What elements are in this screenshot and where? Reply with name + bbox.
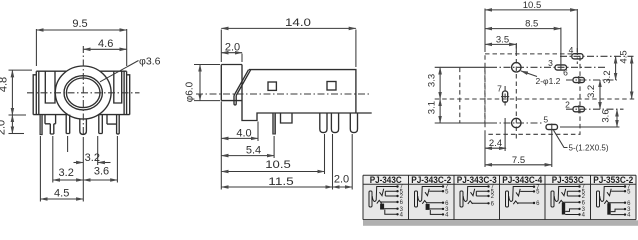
svg-text:3: 3 — [548, 58, 553, 68]
dim 3.2 upper — [74, 162, 84, 164]
dim 10.5 side — [221, 171, 324, 173]
switch V — [471, 189, 475, 196]
wire pin4 — [385, 210, 398, 215]
svg-text:2: 2 — [565, 100, 570, 110]
svg-text:9.5: 9.5 — [72, 18, 87, 30]
svg-text:3.2: 3.2 — [602, 70, 613, 83]
wire pin5 pin2 — [567, 191, 579, 196]
svg-text:PJ-353C: PJ-353C — [552, 175, 584, 185]
svg-text:5-(1.2X0.5): 5-(1.2X0.5) — [569, 144, 609, 153]
footprint dashed outline — [485, 54, 580, 134]
main body outline with chin step — [242, 65, 372, 121]
body outline — [33, 71, 130, 114]
body inner edge lines — [39, 71, 124, 114]
dim 2.0 right — [333, 186, 353, 188]
variants table — [363, 175, 638, 226]
svg-text:4.8: 4.8 — [0, 77, 10, 92]
svg-text:3.5: 3.5 — [496, 34, 509, 45]
side centerline — [196, 93, 371, 95]
right ear flange — [127, 75, 130, 115]
leader 2-phi1.2 — [521, 71, 537, 77]
svg-text:10.5: 10.5 — [523, 0, 542, 11]
front view of jack body — [0, 18, 161, 202]
wire pin6 — [472, 202, 489, 204]
dim 7.5 — [485, 164, 552, 166]
pad drill ticks — [501, 76, 579, 113]
sleeve bar — [597, 191, 600, 207]
outer barrel circle — [55, 66, 111, 119]
svg-text:2.0: 2.0 — [225, 42, 240, 54]
svg-text:5.4: 5.4 — [246, 145, 261, 157]
dim 9.5 — [36, 29, 126, 66]
horizontal center dashed — [435, 98, 637, 100]
switch V — [425, 189, 429, 196]
tip wire to pin7 — [600, 187, 625, 202]
round pin A — [320, 113, 327, 133]
right slot — [114, 71, 122, 103]
dim 11.5 — [221, 186, 332, 188]
dim 4.5 right — [631, 56, 633, 99]
dim 4.0 — [221, 137, 258, 139]
center pin — [80, 120, 87, 135]
dim 4.8 — [9, 70, 33, 115]
switch caret — [513, 201, 518, 204]
wire pin4 — [430, 210, 443, 215]
terminal numbers — [491, 185, 495, 208]
svg-text:PJ-353C-2: PJ-353C-2 — [593, 175, 633, 185]
left slot — [45, 71, 55, 103]
pin 2 tab — [45, 115, 56, 134]
mount hole 1 — [512, 63, 521, 72]
tip wire to pin7 — [463, 187, 488, 202]
terminal numbers — [445, 185, 449, 219]
inner ring circle inner — [66, 78, 100, 108]
dim 2.0 top — [241, 54, 243, 63]
wire pin5 — [520, 190, 534, 192]
switch V — [380, 189, 384, 196]
dim 3.2 right outer — [615, 56, 617, 80]
dim 4.5 — [40, 198, 83, 200]
switch caret — [422, 201, 427, 204]
bottom tab — [281, 113, 293, 123]
wire pin3 — [430, 208, 443, 210]
svg-text:PJ-343C-3: PJ-343C-3 — [457, 175, 497, 185]
wire pin5 — [429, 190, 443, 192]
svg-text:6: 6 — [563, 68, 568, 78]
pcb footprint view — [427, 0, 638, 167]
pad 5 — [546, 124, 558, 129]
svg-text:3.3: 3.3 — [427, 74, 438, 87]
terminal dots — [396, 185, 398, 215]
svg-text:14.0: 14.0 — [285, 17, 311, 29]
thick contact bar — [607, 203, 610, 214]
insulator block — [426, 204, 430, 210]
switch caret — [604, 201, 609, 204]
terminal dots — [624, 185, 626, 216]
dim 3.3 — [439, 67, 441, 99]
pad 7 — [503, 91, 508, 102]
round pin C — [350, 113, 357, 133]
hole centerline bottom — [435, 122, 490, 124]
svg-text:4.5: 4.5 — [54, 188, 69, 200]
pin 1 left — [40, 115, 42, 135]
terminal dots — [578, 185, 580, 215]
terminal numbers — [627, 185, 631, 219]
cell schematic PJ-353C-2 — [597, 185, 632, 219]
dim 3.2 right mid — [599, 80, 601, 109]
dim 3.5 — [485, 43, 516, 45]
sleeve bar — [506, 191, 509, 207]
pin 5 — [99, 115, 103, 134]
bottom extension lines — [40, 136, 117, 202]
slot hole square right — [327, 82, 336, 91]
dim 5.4 — [221, 155, 274, 157]
barrel rectangle — [221, 65, 242, 101]
table frame — [363, 175, 636, 219]
terminal numbers — [536, 185, 540, 207]
svg-text:3.2: 3.2 — [586, 85, 597, 98]
wire pin6 — [517, 202, 534, 204]
svg-text:2.0: 2.0 — [334, 174, 349, 186]
switch V — [516, 189, 520, 196]
svg-text:7: 7 — [497, 84, 502, 94]
sleeve bar — [460, 191, 463, 207]
tip wire to pin7 — [372, 187, 397, 202]
tip wire to pin7 — [509, 187, 534, 202]
spring blade tip — [234, 96, 236, 106]
dim 8.5 — [485, 28, 561, 30]
wire pin6 — [563, 201, 580, 203]
wire pin4 — [565, 214, 579, 216]
cell schematic PJ-343C — [369, 185, 404, 219]
side view of jack body — [185, 17, 372, 190]
tip wire to pin7 — [554, 187, 579, 202]
svg-text:5: 5 — [543, 115, 548, 125]
bottom extension lines pcb — [485, 124, 552, 168]
svg-text:2.0: 2.0 — [0, 120, 8, 135]
horizontal centerline — [27, 92, 140, 94]
dim phi6.0 — [194, 65, 220, 101]
hole centerline top — [435, 66, 490, 68]
dim 3.1 — [439, 99, 441, 123]
sleeve bar — [415, 191, 418, 207]
terminal dots — [533, 186, 535, 205]
pad5 line — [560, 126, 620, 128]
dim 2.0 left — [9, 133, 25, 135]
wire pin5 pin2 — [385, 191, 397, 196]
dim 3.6 right — [616, 109, 618, 127]
svg-text:8.5: 8.5 — [525, 18, 538, 29]
insulator block — [380, 204, 384, 210]
switch V — [562, 189, 566, 196]
wire pin3 branch — [565, 209, 579, 212]
vertical centerline holes — [515, 44, 517, 141]
cell schematic PJ-343C-3 — [460, 185, 495, 208]
pad 3 — [555, 65, 567, 70]
gray band under table — [363, 220, 638, 226]
svg-text:10.5: 10.5 — [265, 159, 291, 171]
spring blade diagonals — [234, 70, 251, 96]
wire pin3 — [384, 208, 397, 210]
svg-text:PJ-343C-2: PJ-343C-2 — [411, 175, 451, 185]
pin 6 tab — [107, 115, 119, 134]
wire pin5 pin2 — [476, 191, 488, 196]
svg-text:4.0: 4.0 — [236, 127, 251, 139]
terminal dots — [442, 185, 444, 215]
svg-text:3.2: 3.2 — [85, 152, 100, 164]
pin 3 — [66, 115, 70, 134]
svg-text:PJ-343C: PJ-343C — [370, 175, 402, 185]
wire pin3 branch — [611, 209, 625, 212]
sleeve bar — [551, 191, 554, 207]
leader 5-(1.2X0.5) — [554, 130, 568, 147]
switch caret — [377, 200, 382, 203]
pad 4 — [572, 54, 583, 59]
dim 10.5 pcb — [485, 9, 577, 11]
switch caret — [559, 200, 564, 203]
wire pin6 — [608, 202, 625, 204]
thin pin — [273, 113, 276, 134]
cell schematic PJ-343C-4 — [506, 185, 541, 207]
barrel footprint dashed — [460, 68, 485, 123]
svg-text:2-φ1.2: 2-φ1.2 — [536, 76, 561, 86]
switch caret — [468, 201, 473, 204]
svg-text:4.6: 4.6 — [98, 38, 113, 50]
pad 2 — [573, 107, 585, 112]
thick contact bar — [562, 203, 565, 215]
dim 3.2 lower — [53, 179, 84, 181]
svg-text:7.5: 7.5 — [512, 155, 525, 166]
svg-text:φ6.0: φ6.0 — [185, 81, 196, 102]
vertical centerline — [82, 46, 84, 136]
wire pin4 — [611, 214, 625, 216]
svg-text:PJ-343C-4: PJ-343C-4 — [502, 175, 542, 185]
svg-text:2.4: 2.4 — [489, 138, 502, 149]
svg-text:4.5: 4.5 — [619, 50, 630, 63]
inner ring circle outer — [64, 76, 102, 110]
svg-text:φ3.6: φ3.6 — [139, 57, 161, 68]
slot hole square left — [268, 82, 276, 90]
svg-text:11.5: 11.5 — [268, 176, 294, 188]
svg-text:4: 4 — [569, 45, 574, 55]
round pin B — [331, 113, 338, 133]
svg-text:3.2: 3.2 — [59, 167, 74, 179]
terminal numbers — [582, 185, 586, 219]
terminal numbers — [400, 185, 404, 219]
dim 4.6 — [83, 48, 126, 50]
dim 2.4 — [485, 147, 506, 149]
svg-text:3.1: 3.1 — [427, 101, 438, 114]
dim 3.6 — [83, 179, 117, 181]
top extension lines pcb — [485, 9, 577, 71]
svg-text:3.6: 3.6 — [601, 109, 612, 122]
tip wire to pin7 — [418, 187, 443, 202]
mount hole 2 — [512, 118, 521, 127]
table background — [363, 175, 636, 219]
wire pin6 — [426, 202, 443, 204]
left ear flange — [33, 75, 36, 115]
wire pin5 — [611, 190, 625, 192]
cell schematic PJ-353C — [551, 185, 586, 219]
side bottom extension lines — [221, 102, 352, 190]
switch V — [607, 189, 611, 196]
pad 6 — [573, 77, 585, 82]
sleeve bar — [369, 191, 372, 207]
cell schematic PJ-343C-2 — [415, 185, 450, 219]
svg-text:3.6: 3.6 — [94, 166, 109, 178]
dim 14.0 — [221, 30, 356, 68]
wire pin6 — [381, 201, 398, 203]
terminal dots — [487, 185, 489, 204]
